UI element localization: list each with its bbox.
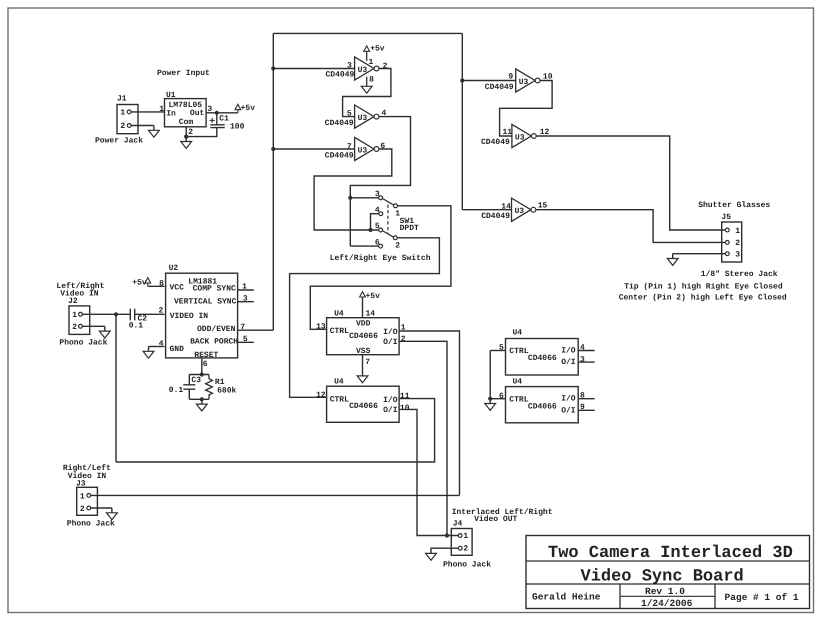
inverter U3D CD4049 [516,69,535,92]
capacitor C3 top lead [188,375,190,385]
svg-text:CD4049: CD4049 [325,119,354,128]
svg-text:CD4049: CD4049 [481,212,510,221]
svg-text:6: 6 [203,360,208,369]
svg-text:1: 1 [369,58,374,67]
svg-text:Video Sync Board: Video Sync Board [581,568,744,587]
wire U4B pin 11 to J2 video node [116,399,435,462]
svg-text:Phono Jack: Phono Jack [67,519,115,528]
wire C1 bottom to U1 Com [186,128,217,137]
SW1 pin 5 circle [379,228,383,232]
wire into SW1 pin 3 [350,197,378,199]
ground at J5 pin 3 [672,254,674,259]
ground below C3 R1 [201,399,203,404]
wire U3A output to U3B input [343,69,391,117]
wire net ODD/EVEN right riser [461,33,463,209]
svg-text:U3: U3 [515,133,525,142]
svg-text:9: 9 [508,73,513,82]
svg-text:11: 11 [400,392,410,401]
U2 pin 1 stub COMP SYNC [238,289,254,291]
svg-text:2: 2 [395,242,400,251]
svg-text:3: 3 [580,355,585,364]
svg-text:2: 2 [735,239,740,248]
wire U4A pin 1 to J3 riser [399,331,459,495]
+5v power symbol at U3A [364,46,370,51]
svg-text:1: 1 [463,532,468,541]
ground at J3 pin 2 [111,508,113,513]
svg-text:I/O: I/O [561,346,576,355]
wire C3 R1 bottom node [189,398,209,400]
svg-text:2: 2 [463,545,468,554]
svg-text:CD4049: CD4049 [326,71,355,80]
wire net ODD/EVEN left riser [272,33,274,330]
inverter U3B CD4049 [355,105,374,128]
wire J1 pin1 to U1 In [131,111,164,113]
svg-text:U3: U3 [519,78,529,87]
U4D pin 8 stub [578,398,595,400]
wire to U3D input pin 9 [462,80,515,82]
SW1 pin 4 circle [379,212,383,216]
svg-text:U3: U3 [358,146,368,155]
ground at U3A pin 8 [361,86,372,93]
svg-text:U3: U3 [358,114,368,123]
svg-text:+5v: +5v [366,292,381,301]
connector J2 phono jack [69,306,90,335]
wire into SW1 pin 6 [350,245,378,247]
title block divider 2 [526,583,810,585]
junction dot at U4 ground node [488,397,492,401]
svg-text:J5: J5 [721,213,731,222]
analog switch U4D CD4066 body [506,387,579,423]
svg-text:CD4066: CD4066 [528,402,557,411]
svg-text:1: 1 [72,311,77,320]
U4D pin 9 stub [578,409,595,411]
+5v power symbol at U1 output [235,104,241,109]
svg-text:GND: GND [170,345,185,354]
svg-text:+5v: +5v [370,44,385,53]
svg-text:CTRL: CTRL [330,327,349,336]
svg-text:U3: U3 [515,207,525,216]
svg-text:Phono Jack: Phono Jack [443,560,491,569]
svg-text:10: 10 [400,404,410,413]
svg-text:Power Jack: Power Jack [95,137,143,146]
svg-text:8: 8 [159,280,164,289]
wire SW1 pin 2 to U4B CTRL pin 12 [290,238,440,397]
svg-text:100: 100 [230,123,245,132]
wire U3C output to SW1 pins 4 and 5 [314,149,392,230]
ground at U2 pin 4 [148,347,150,352]
wire into SW1 pin 4 [371,214,379,230]
svg-text:Gerald Heine: Gerald Heine [532,592,601,603]
connector J4 phono jack [451,529,472,556]
ground at J2 pin 2 [104,326,106,331]
svg-text:CTRL: CTRL [509,395,528,404]
svg-text:U2: U2 [169,264,179,273]
svg-text:Shutter Glasses: Shutter Glasses [698,201,770,210]
junction dot at J2 video node [114,312,118,316]
svg-text:4: 4 [159,340,164,349]
wire to U3C input pin 7 [273,148,354,150]
U4C pin 4 stub [578,350,595,352]
J4 pin 2 circle [458,546,462,550]
ground at J4 pin 2 [426,553,437,560]
svg-text:Rev 1.0: Rev 1.0 [645,586,685,597]
svg-text:Two Camera Interlaced 3D: Two Camera Interlaced 3D [548,544,793,563]
J5 pin 2 circle [725,241,729,245]
svg-text:J4: J4 [453,520,463,529]
wire J5 pin 3 to ground [673,253,726,255]
svg-text:2: 2 [188,128,193,137]
U4C pin 3 stub [578,361,595,363]
svg-text:14: 14 [501,203,511,212]
svg-text:RESET: RESET [194,351,218,360]
wire J3 pin 1 to U4A [91,494,460,496]
wire J1 pin2 to ground [131,125,154,127]
svg-text:U4: U4 [334,377,344,386]
J2 pin 2 circle [79,324,83,328]
ground riser for U4C U4D [489,351,491,399]
sync separator U2 LM1881 body [166,273,238,358]
wire +5v to U4A VDD pin 14 [362,297,364,318]
svg-text:O/I: O/I [383,338,398,347]
title block rev date divider [620,595,715,597]
J1 pin 1 circle [127,110,131,114]
wire U4A pin 2 to output node [399,341,447,535]
svg-text:8: 8 [369,75,374,84]
svg-text:1: 1 [120,108,125,117]
analog switch U4A CD4066 body [327,318,400,355]
svg-text:2: 2 [383,62,388,71]
svg-text:1: 1 [735,227,740,236]
+5v power symbol at U2 VCC [145,278,151,283]
junction dot at U3C input [271,147,275,151]
svg-text:1/8" Stereo Jack: 1/8" Stereo Jack [701,270,778,279]
wire U2 RESET pin 6 down [201,359,203,375]
U3A pin 1 power stem [366,53,368,61]
capacitor C2 plates [130,309,134,321]
svg-text:2: 2 [120,122,125,131]
svg-text:680k: 680k [217,387,236,396]
svg-text:6: 6 [499,392,504,401]
inverter U3E CD4049 [512,124,531,147]
J1 pin 2 circle [127,124,131,128]
svg-text:Out: Out [190,109,205,118]
svg-text:CD4066: CD4066 [528,354,557,363]
J3 pin 1 circle [87,494,91,498]
+5v power symbol at U4A [360,292,366,297]
svg-text:3: 3 [735,251,740,260]
junction dot at SW1 pin 3 wire [348,196,352,200]
svg-text:+5v: +5v [241,104,256,113]
title block column divider left [619,584,621,609]
svg-text:I/O: I/O [561,395,576,404]
svg-text:BACK PORCH: BACK PORCH [190,337,238,346]
svg-text:2: 2 [80,505,85,514]
capacitor C1 plates [210,125,224,128]
wire to U3F input pin 14 [462,209,511,211]
wire C1 top lead [216,113,218,125]
wire U1 Out to +5v [206,112,238,114]
svg-text:CD4049: CD4049 [481,138,510,147]
junction dot at C3 R1 bottom node [200,397,204,401]
J3 pin 2 circle [87,506,91,510]
SW1 blade pole 1 [382,198,394,205]
inverter U3C CD4049 [355,137,374,160]
svg-text:1: 1 [80,493,85,502]
inverter U3A CD4049 [355,57,374,80]
capacitor C3 bottom lead [188,389,190,399]
wire U3B output to SW1 pins 3 and 6 [350,117,410,247]
svg-text:2: 2 [401,335,406,344]
ground at U4A pin 7 [357,376,368,383]
connector J5 body [722,222,742,262]
svg-text:VERTICAL SYNC: VERTICAL SYNC [174,297,237,306]
svg-text:1/24/2006: 1/24/2006 [641,598,693,609]
svg-text:I/O: I/O [383,396,398,405]
svg-text:COMP SYNC: COMP SYNC [193,284,236,293]
connector J3 phono jack [77,487,98,515]
svg-text:Power Input: Power Input [157,69,210,78]
svg-text:Video IN: Video IN [68,472,107,481]
svg-text:CD4049: CD4049 [325,151,354,160]
wire U4A VSS pin 7 to ground [362,355,364,376]
SW1 pin 6 circle [379,244,383,248]
svg-text:Left/Right Eye Switch: Left/Right Eye Switch [330,254,431,263]
svg-text:12: 12 [316,391,326,400]
SW1 pin 1 circle [394,204,398,208]
wire U4C CTRL pin 5 to ground riser [490,350,505,352]
capacitor C1 plus sign [210,118,215,123]
junction dot at U3A input [271,66,275,70]
svg-text:7: 7 [347,143,352,152]
svg-text:J2: J2 [68,297,78,306]
svg-text:CD4049: CD4049 [485,83,514,92]
analog switch U4C CD4066 body [506,339,579,376]
wire +5v to U2 VCC pin 8 [148,285,165,287]
svg-text:Com: Com [179,118,194,127]
J4 pin 1 circle [458,534,462,538]
wire U1 Com pin 2 down [185,127,187,142]
junction dot below U1 Com [184,135,188,139]
svg-text:Video OUT: Video OUT [474,515,517,524]
wire J2 pin 2 to ground [82,325,104,327]
svg-text:C1: C1 [219,115,229,124]
svg-text:J1: J1 [117,95,127,104]
svg-text:Phono Jack: Phono Jack [59,339,107,348]
SW1 linkage dashed line [387,205,389,234]
svg-text:VIDEO IN: VIDEO IN [170,312,209,321]
wire J4 pin 2 to ground [431,548,458,553]
wire to U3A input pin 3 [273,68,354,70]
svg-text:U4: U4 [513,378,523,387]
U2 pin 5 stub BACK PORCH [238,341,254,343]
svg-text:I/O: I/O [383,328,398,337]
svg-text:13: 13 [316,323,326,332]
svg-text:7: 7 [365,358,370,367]
svg-text:2: 2 [72,323,77,332]
inverter U3F CD4049 [512,198,531,221]
svg-text:11: 11 [503,128,513,137]
svg-text:VCC: VCC [170,284,185,293]
svg-text:U3: U3 [358,66,368,75]
wire net ODD/EVEN top run [273,32,462,34]
svg-text:0.1: 0.1 [169,386,184,395]
svg-text:U4: U4 [513,329,523,338]
svg-text:14: 14 [366,309,376,318]
junction dot at C1 top [215,111,219,115]
junction dot at U3D input [460,78,464,82]
SW1 pin 3 circle [379,196,383,200]
ground at U4C U4D CTRL [489,399,491,404]
connector J1 power jack [117,105,138,134]
svg-text:In: In [166,110,176,119]
wire C3 R1 top node [189,374,209,376]
wire U4B pin 10 to output node [399,409,458,535]
svg-text:C3: C3 [191,376,201,385]
wire C2 to U2 VIDEO IN pin 2 [135,313,165,315]
wire U3E output to J5 pin 1 [536,136,725,230]
svg-text:DPDT: DPDT [400,224,419,233]
svg-text:Center (Pin 2) high Left Eye C: Center (Pin 2) high Left Eye Closed [619,294,787,303]
svg-text:CTRL: CTRL [509,347,528,356]
svg-text:Video IN: Video IN [60,289,99,298]
svg-text:7: 7 [240,323,245,332]
svg-text:O/I: O/I [383,406,398,415]
svg-text:O/I: O/I [561,406,576,415]
svg-text:CTRL: CTRL [330,395,349,404]
svg-text:CD4066: CD4066 [349,402,378,411]
regulator U1 LM78L05 body [165,99,207,127]
svg-text:U4: U4 [334,309,344,318]
U2 pin 3 stub VERTICAL SYNC [238,301,254,303]
title block frame [526,536,810,609]
svg-text:Tip (Pin 1) high Right Eye Clo: Tip (Pin 1) high Right Eye Closed [624,282,783,291]
J5 pin 3 circle [725,252,729,256]
SW1 blade pole 2 [382,231,393,238]
wire SW1 pin 1 to U4A CTRL pin 13 [310,206,451,329]
svg-text:0.1: 0.1 [129,322,144,331]
svg-text:Page # 1 of 1: Page # 1 of 1 [725,592,799,603]
svg-text:VDD: VDD [356,319,371,328]
wire J2 pin 1 to C2 [82,313,130,315]
junction dot at SW1 pin 4 branch [368,228,372,232]
ground at J1 pin2 [153,126,155,131]
svg-text:ODD/EVEN: ODD/EVEN [197,325,236,334]
J5 pin 1 circle [725,228,729,232]
wire J3 pin 2 to ground [91,507,112,509]
wire J2 video node down to U4B [115,314,117,462]
wire ground to U2 GND pin 4 [149,346,165,348]
svg-text:3: 3 [347,61,352,70]
wire U3F output to J5 pin 2 [536,210,726,243]
J2 pin 1 circle [79,312,83,316]
junction dot at J4 output node [445,533,449,537]
wire U2 pin7 to left riser [238,329,274,331]
resistor R1 zigzag [206,375,213,400]
ground below U1 [181,142,192,149]
svg-text:O/I: O/I [561,358,576,367]
svg-text:VSS: VSS [356,347,371,356]
wire U4D CTRL pin 6 to ground [490,398,505,400]
capacitor C3 plates [183,385,195,389]
U3A pin 8 ground stem [366,77,368,87]
title block column divider right [714,584,716,609]
svg-text:CD4066: CD4066 [349,332,378,341]
svg-text:1: 1 [159,105,164,114]
wire U3D output to U3E input [500,81,552,137]
svg-text:5: 5 [347,109,352,118]
title block divider 1 [526,560,810,562]
analog switch U4B CD4066 body [327,386,400,422]
junction dot at C3 R1 top node [200,372,204,376]
SW1 pin 2 circle [393,236,397,240]
